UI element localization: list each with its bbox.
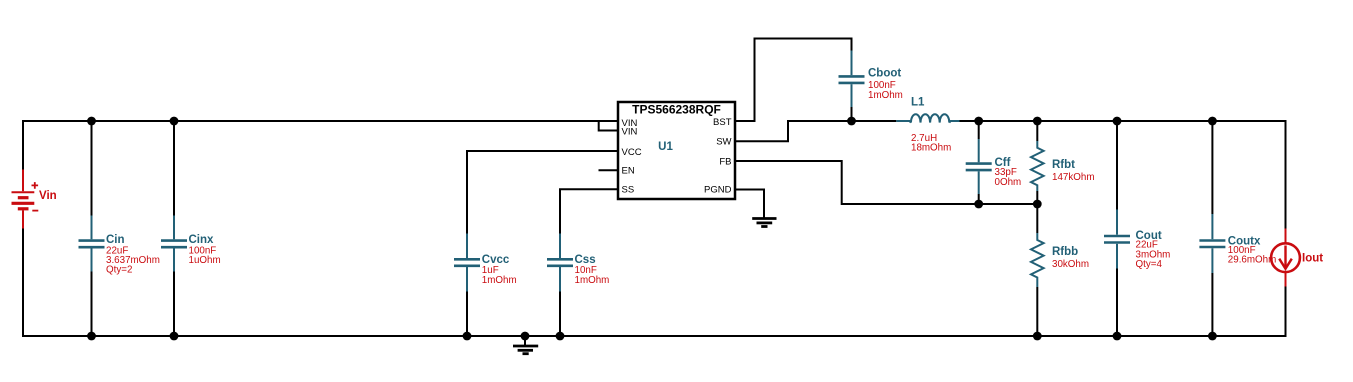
svg-text:VCC: VCC <box>622 147 642 158</box>
wire EN stub <box>599 169 619 171</box>
svg-text:Vin: Vin <box>39 190 57 202</box>
svg-text:147kOhm: 147kOhm <box>1052 172 1094 183</box>
svg-text:Cvcc: Cvcc <box>482 254 510 266</box>
wire VCC to Cvcc <box>467 151 618 234</box>
wire left edge bottom <box>22 229 24 338</box>
wire L1 to output rail to Iout corner <box>959 121 1286 229</box>
capacitor Css <box>547 234 609 292</box>
svg-text:SS: SS <box>622 185 635 196</box>
wire bottom rail <box>23 335 1286 337</box>
wire Cboot bottom to SW rail node <box>851 107 853 121</box>
node dot top rail Cin <box>87 117 96 126</box>
node dot bottom rail Cvcc <box>463 332 472 341</box>
wire FB node line <box>735 161 1037 204</box>
capacitor Cvcc <box>454 234 517 292</box>
svg-text:29.6mOhm: 29.6mOhm <box>1228 255 1276 266</box>
node dot SW rail Cboot <box>847 117 856 126</box>
ground (PGND) <box>752 219 776 227</box>
wire VIN pin2 jog <box>599 120 618 131</box>
node dot bottom rail Coutx <box>1208 332 1217 341</box>
node dot output rail Coutx <box>1208 117 1217 126</box>
capacitor Cout <box>1104 210 1170 271</box>
wire Cinx column <box>173 120 175 216</box>
svg-text:0Ohm: 0Ohm <box>995 177 1022 188</box>
resistor Rfbt <box>1031 141 1094 191</box>
wire Iout bottom to bottom rail <box>1285 287 1287 338</box>
svg-text:Rfbb: Rfbb <box>1052 246 1078 258</box>
wire Rfbb leads <box>1036 204 1038 233</box>
wire Coutx column <box>1211 120 1213 214</box>
svg-text:1uOhm: 1uOhm <box>189 255 221 266</box>
svg-text:PGND: PGND <box>704 185 732 196</box>
wire top rail from Vin to U1 VIN pin <box>23 120 618 122</box>
node dot FB Cff <box>974 200 983 209</box>
capacitor Cinx <box>161 216 221 272</box>
svg-text:FB: FB <box>719 156 731 167</box>
svg-text:1mOhm: 1mOhm <box>868 90 903 101</box>
capacitor Cin <box>79 216 160 276</box>
inductor L1 <box>896 97 959 154</box>
svg-text:30kOhm: 30kOhm <box>1052 259 1089 270</box>
svg-text:L1: L1 <box>911 97 925 109</box>
wire Cin column <box>91 120 93 216</box>
node dot bottom rail Rfbb <box>1033 332 1042 341</box>
node dot bottom rail Cin <box>87 332 96 341</box>
wire Cff column <box>978 120 980 139</box>
svg-text:EN: EN <box>622 166 635 177</box>
svg-text:Css: Css <box>575 254 596 266</box>
capacitor Coutx <box>1199 214 1276 273</box>
svg-text:Qty=2: Qty=2 <box>106 265 132 276</box>
wire BST to top loop to Cboot <box>735 39 852 122</box>
svg-text:BST: BST <box>713 117 732 128</box>
op-amp U1 TPS566238RQF (IC body) <box>618 102 735 199</box>
node dot top rail Cinx <box>170 117 179 126</box>
node dot output rail Cff <box>974 117 983 126</box>
capacitor Cff <box>966 139 1021 194</box>
svg-text:SW: SW <box>716 137 731 148</box>
node dot bottom rail Css <box>556 332 565 341</box>
voltage source Vin (battery) <box>12 170 57 229</box>
node dot output rail Rfbt <box>1033 117 1042 126</box>
svg-text:Rfbt: Rfbt <box>1052 159 1075 171</box>
node dot bottom rail ground <box>521 332 530 341</box>
wire Rfbt leads <box>1036 120 1038 141</box>
svg-text:VIN: VIN <box>622 126 638 137</box>
node dot output rail Cout <box>1113 117 1122 126</box>
svg-text:Iout: Iout <box>1302 252 1323 264</box>
wire left edge top (Vin top lead) <box>22 120 24 170</box>
svg-text:18mOhm: 18mOhm <box>911 143 951 154</box>
svg-text:1mOhm: 1mOhm <box>482 275 517 286</box>
svg-text:Qty=4: Qty=4 <box>1136 259 1163 270</box>
node dot bottom rail Cinx <box>170 332 179 341</box>
node dot bottom rail Cout <box>1113 332 1122 341</box>
node dot FB Rfbt <box>1033 200 1042 209</box>
wire PGND to ground <box>735 190 764 219</box>
ground (bottom rail) <box>513 346 538 354</box>
svg-text:U1: U1 <box>658 141 673 153</box>
svg-text:Cboot: Cboot <box>868 68 901 80</box>
wire SS to Css <box>560 189 618 233</box>
wire SW to L1 rail <box>735 121 896 141</box>
svg-text:1mOhm: 1mOhm <box>575 275 610 286</box>
wire ground stub on bottom rail <box>524 336 526 346</box>
current source Iout <box>1271 229 1323 287</box>
svg-text:Cinx: Cinx <box>189 234 215 246</box>
wire Cout column <box>1116 120 1118 210</box>
capacitor Cboot <box>839 51 903 108</box>
svg-text:Cin: Cin <box>106 234 125 246</box>
resistor Rfbb <box>1031 233 1089 287</box>
svg-text:TPS566238RQF: TPS566238RQF <box>632 103 721 117</box>
